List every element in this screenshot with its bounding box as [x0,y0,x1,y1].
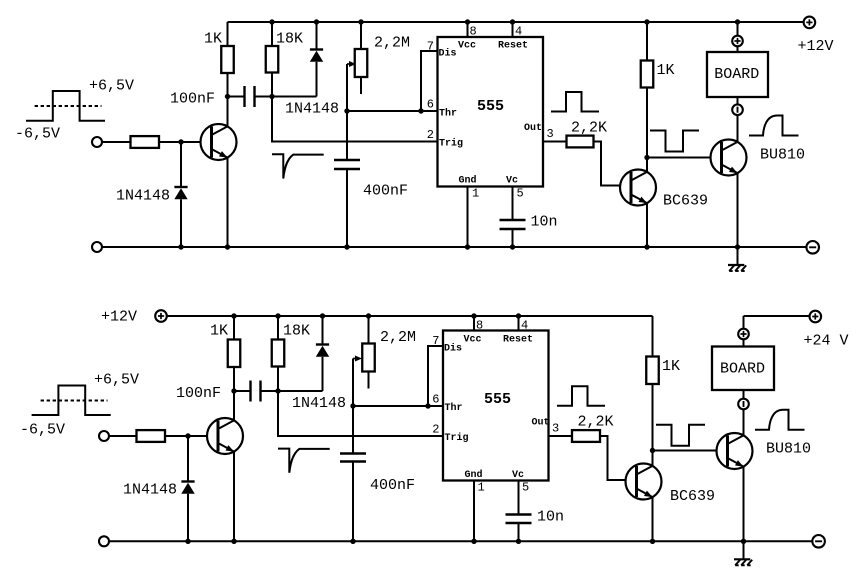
terminal +12V bottom circuit [155,310,167,322]
node Q1 collector / C1 [225,94,230,99]
transistor Q5 BC639 bottom [626,464,662,500]
svg-text:Reset: Reset [503,335,533,346]
node base junction bottom [185,433,190,438]
node Q2 collector junction top [644,155,649,160]
wire Q5 emitter down bottom [652,497,654,541]
capacitor C4 100nF bottom [234,381,278,402]
pin 4 label bottom [521,319,528,333]
svg-text:Gnd: Gnd [465,469,483,481]
label 555 top [477,98,504,115]
wire +24V horizontal [744,315,810,317]
IC U2 555 box bottom [443,331,549,481]
transistor Q4 bottom [207,418,243,454]
resistor R-in bottom (unlabeled) [137,430,166,442]
node 10n-rail top [510,244,515,249]
node wiper-Thr top [344,108,349,113]
node C1 right / 18K bottom [269,94,274,99]
svg-text:Vc: Vc [512,470,524,481]
svg-text:1N4148: 1N4148 [292,395,346,412]
terminal +24V bottom circuit [810,311,822,323]
pin Thr label top [439,107,457,119]
svg-text:Thr: Thr [439,107,457,119]
potentiometer P1 2,2M top [355,22,368,94]
pin 8 stub top [467,22,469,37]
label 400nF bottom [370,477,415,494]
svg-text:BC639: BC639 [670,488,715,505]
svg-text:Vc: Vc [506,175,518,186]
label BOARD top [714,66,759,83]
IC U1 555 box top [438,37,544,187]
svg-text:Vcc: Vcc [458,40,476,51]
rounded pulse waveform symbol top [749,116,799,136]
pin 6 label bottom [432,393,439,407]
input terminal top circuit [92,137,102,147]
svg-text:555: 555 [484,391,511,408]
bottom rail (0V) top circuit [102,246,806,248]
pin Out label bottom [532,418,550,429]
diode D2 1N4148 top [272,22,323,97]
negative spike waveform symbol bottom [278,449,330,473]
node D3-rail bottom [185,539,190,544]
label +6,5V bottom [94,372,139,389]
terminal BOARD plus bottom [738,329,749,340]
node C5-rail bottom [350,539,355,544]
pin 8 label bottom [476,319,483,333]
label +6,5V top [89,78,134,95]
wire rail to BOARD plus top [737,22,739,36]
transistor Q3 BU810 top [711,140,747,176]
pin 4 label top [515,25,522,39]
svg-text:+12V: +12V [798,38,834,55]
node Q1 emitter rail top [225,244,230,249]
resistor R3 18K top [266,22,279,97]
pin Vc label top [506,175,518,186]
svg-text:1K: 1K [210,322,228,339]
node Q5 emitter rail bottom [650,539,655,544]
node rail-BOARD top [735,19,740,24]
label 10n bottom [537,509,564,526]
input terminal bottom circuit [99,431,109,441]
svg-text:Out: Out [532,418,550,429]
svg-text:Thr: Thr [445,402,463,414]
node Q5 collector junction bottom [650,448,655,453]
wire Q4 emitter down bottom [233,452,235,542]
node wiper-Thr bottom [350,403,355,408]
svg-text:+6,5V: +6,5V [94,372,139,389]
pin Out label top [524,123,542,134]
node rail-18K top [269,19,274,24]
node rail-D2 top [314,19,319,24]
wire Q5 collector up bottom [652,451,654,466]
node rail-pin8 bottom [471,313,476,318]
top supply rail (+12V) top circuit [228,21,804,23]
svg-text:6: 6 [427,98,434,112]
pin 8 stub bottom [473,316,475,331]
node Q3 emitter rail top [735,244,740,249]
svg-text:400nF: 400nF [370,477,415,494]
svg-text:3: 3 [547,127,554,141]
pin 5 label bottom [522,481,529,495]
label 1K R6 bottom [210,322,228,339]
resistor R-in top (unlabeled) [131,136,160,148]
node rail-18K bottom [275,313,280,318]
svg-text:BU810: BU810 [766,441,811,458]
diode D3 1N4148 (input clamp) bottom [181,436,194,541]
node Q4 emitter rail bottom [231,539,236,544]
wire Out pin3 bottom [549,435,573,437]
wire Q3 collector up top [737,115,739,142]
node C4 right / 18K bottom [275,388,280,393]
svg-text:BC639: BC639 [663,193,708,210]
node base junction top [178,139,183,144]
svg-text:Reset: Reset [498,40,528,51]
svg-text:3: 3 [552,422,559,436]
inverted pulse waveform symbol bottom [656,425,705,446]
resistor R6 1K bottom-left [228,316,241,391]
input waveform symbol (square wave) bottom circuit [32,386,111,416]
wiper arrow P1 top [347,61,356,111]
svg-text:18K: 18K [283,322,310,339]
svg-text:5: 5 [522,481,529,495]
node rail-P2 bottom [366,313,371,318]
negative spike waveform symbol top [272,154,324,178]
wire resistor to Q1 base [159,141,212,143]
node Dis-Thr top [418,108,423,113]
BOARD box top [707,52,768,97]
pin Reset label top [498,40,528,51]
terminal minus right bottom circuit [812,535,825,548]
transistor Q1 top [201,124,237,160]
node rail-pin8 top [465,19,470,24]
wire Q5 collector to Q6 base bottom [653,450,728,452]
svg-text:-6,5V: -6,5V [15,125,60,142]
pin 3 label top [547,127,554,141]
pin 1 label bottom [478,481,485,495]
pin Gnd label top [459,174,477,186]
label 1K R5 top [657,62,675,79]
diode D4 1N4148 bottom [278,316,329,391]
wire Q2 collector up top [646,158,648,172]
svg-text:1K: 1K [657,62,675,79]
svg-text:100nF: 100nF [176,385,221,402]
capacitor C3 10n top [500,187,526,248]
svg-text:6: 6 [432,393,439,407]
pin Vcc label bottom [464,335,482,346]
svg-text:2: 2 [427,128,434,142]
svg-text:2,2K: 2,2K [571,119,607,136]
label -6,5V bottom [20,422,65,439]
label 10n top [531,214,558,231]
svg-text:2,2K: 2,2K [578,414,614,431]
node rail-D4 bottom [320,313,325,318]
svg-text:1K: 1K [204,30,222,47]
svg-text:Dis: Dis [439,48,457,60]
capacitor C1 100nF top [228,86,273,107]
svg-text:8: 8 [470,25,477,39]
bottom rail (0V) bottom circuit [109,540,812,542]
label BU810 bottom [766,441,811,458]
resistor R9 1K bottom-right [646,316,659,451]
pin 5 label top [517,187,524,201]
wire input to series resistor [102,141,131,143]
label 2,2K bottom [578,414,614,431]
node rail-pin4 top [510,19,515,24]
wire resistor to Q4 base bottom [165,435,218,437]
svg-text:4: 4 [521,319,528,333]
chassis ground symbol top [728,247,746,271]
label BU810 top [760,147,805,164]
svg-text:Vcc: Vcc [464,335,482,346]
svg-text:1K: 1K [662,358,680,375]
wire Dis (pin7) top [421,51,438,111]
label 1K R9 bottom [662,358,680,375]
pin 4 stub top [512,22,514,37]
label +12V top [798,38,834,55]
svg-text:10n: 10n [537,509,564,526]
node rail-R6 bottom [231,313,236,318]
label 1N4148 D2 top [285,101,339,118]
pulse waveform symbol at Out bottom [557,386,605,406]
resistor R4 2,2K top [567,136,594,148]
svg-text:Trig: Trig [445,432,469,444]
node C2-rail top [344,244,349,249]
pin Dis label top [439,48,457,60]
svg-text:-6,5V: -6,5V [20,422,65,439]
terminal BOARD minus top [732,104,743,115]
svg-text:1: 1 [472,187,479,201]
wire Q6 collector up bottom [743,409,745,435]
node gnd-rail top [465,244,470,249]
node Q6 emitter rail bottom [741,539,746,544]
transistor Q6 BU810 bottom [717,433,753,469]
wire Q1 emitter down [227,158,229,247]
resistor R5 1K top-right [641,22,654,158]
potentiometer P2 2,2M bottom [362,316,375,389]
wire 2,2K to Q5 base bottom [600,436,637,480]
label 18K R3 top [276,30,303,47]
capacitor C5 400nF bottom [340,406,366,541]
capacitor C2 400nF top [334,111,360,247]
pulse waveform symbol at Out top [551,92,599,112]
terminal BOARD minus bottom [738,399,749,410]
svg-text:2,2M: 2,2M [380,329,416,346]
svg-text:8: 8 [476,319,483,333]
wiper arrow P2 bottom [353,356,362,407]
svg-text:100nF: 100nF [170,91,215,108]
svg-text:2,2M: 2,2M [374,34,410,51]
resistor R7 18K bottom [272,316,285,391]
rounded pulse waveform symbol bottom [755,410,805,430]
wire input to series resistor bottom [109,435,137,437]
svg-text:5: 5 [517,187,524,201]
pin 4 stub bottom [518,316,520,331]
pin 8 label top [470,25,477,39]
terminal minus right top circuit [806,241,819,254]
wire Dis (pin7) bottom [428,346,443,406]
top supply rail bottom circuit [167,315,653,317]
svg-text:1: 1 [478,481,485,495]
svg-text:7: 7 [427,40,434,54]
node Dis-Thr bottom [425,403,430,408]
wire BOARD plus to box top [737,46,739,52]
label BC639 top [663,193,708,210]
node Q4 collector / C4 bottom [231,388,236,393]
svg-text:400nF: 400nF [363,183,408,200]
svg-text:BOARD: BOARD [714,66,759,83]
node Q2 emitter rail top [644,244,649,249]
label 18K R7 bottom [283,322,310,339]
label 1N4148 D3 bottom [123,482,177,499]
ground terminal left top circuit [92,242,102,252]
svg-text:18K: 18K [276,30,303,47]
wire Gnd pin1 down top [467,187,469,248]
chassis ground symbol bottom [734,541,752,565]
capacitor C6 10n bottom [506,481,532,542]
BOARD box bottom [712,347,774,391]
node rail-P1 top [358,19,363,24]
label 555 bottom [484,391,511,408]
resistor R8 2,2K bottom [572,430,600,442]
svg-text:2: 2 [432,423,439,437]
wire BOARD plus to box bottom [743,339,745,346]
label -6,5V top [15,125,60,142]
label 2,2M bottom [380,329,416,346]
pin Gnd label bottom [465,469,483,481]
wire Thr (pin6) bottom [353,405,443,407]
pin 6 label top [427,98,434,112]
label 100nF top [170,91,215,108]
svg-text:4: 4 [515,25,522,39]
wire Q4 collector up bottom [233,391,235,420]
pin 7 label top [427,40,434,54]
pin Vc label bottom [512,470,524,481]
svg-text:1N4148: 1N4148 [116,188,170,205]
node rail-R5 top [644,19,649,24]
svg-text:1N4148: 1N4148 [123,482,177,499]
terminal +12V top circuit [804,17,816,29]
node rail-pin4 bottom [516,313,521,318]
wire Q2 emitter down top [646,203,648,247]
node D1-rail top [178,244,183,249]
pin Dis label bottom [444,343,462,355]
ground terminal left bottom circuit [99,536,109,546]
terminal BOARD plus top [732,36,743,47]
wire Q6 emitter down bottom [743,467,745,542]
label 2,2K top [571,119,607,136]
svg-text:Gnd: Gnd [459,174,477,186]
inverted pulse waveform symbol top [650,131,699,152]
pin Trig label top [439,137,463,149]
wire Thr (pin6) top [347,110,438,112]
svg-text:Trig: Trig [439,137,463,149]
pin 2 label bottom [432,423,439,437]
svg-text:+6,5V: +6,5V [89,78,134,95]
node gnd-rail bottom [471,539,476,544]
svg-text:10n: 10n [531,214,558,231]
pin Vcc label top [458,40,476,51]
pin Reset label bottom [503,335,533,346]
wire Trig (pin2) bottom [278,391,443,436]
wire Q2 collector to Q3 base top [647,157,722,159]
svg-text:+24 V: +24 V [804,332,849,349]
transistor Q2 BC639 top [620,170,656,206]
svg-text:+12V: +12V [101,309,137,326]
wire Out pin3 top [543,141,567,143]
pin 7 label bottom [432,334,439,348]
pin 3 label bottom [552,422,559,436]
svg-text:7: 7 [432,334,439,348]
input waveform symbol (square wave) top circuit [26,91,105,121]
svg-text:BOARD: BOARD [720,361,765,378]
wire Q3 emitter down top [737,173,739,247]
resistor R2 1K top-left [221,22,234,97]
pin Thr label bottom [445,402,463,414]
label +24 V bottom [804,332,849,349]
pin 2 label top [427,128,434,142]
wire Q1 collector up [227,97,229,127]
node 10n-rail bottom [516,539,521,544]
svg-text:555: 555 [477,98,504,115]
label 400nF top [363,183,408,200]
wire 2,2K to Q2 base top [594,142,632,186]
svg-text:Out: Out [524,123,542,134]
wire BOARD plus up to +24V wire [743,316,745,329]
label 1N4148 D1 top [116,188,170,205]
wire BOARD box to minus terminal bottom [743,390,745,399]
diode D1 1N4148 (input clamp) top [174,142,187,247]
wire Gnd pin1 down bottom [473,481,475,542]
svg-text:BU810: BU810 [760,147,805,164]
label BC639 bottom [670,488,715,505]
label 100nF bottom [176,385,221,402]
label 2,2M top [374,34,410,51]
wire BOARD box to minus terminal top [737,97,739,104]
label 1K R2 top [204,30,222,47]
label +12V bottom [101,309,137,326]
label BOARD bottom [720,361,765,378]
pin Trig label bottom [445,432,469,444]
label 1N4148 D4 bottom [292,395,346,412]
wire Trig (pin2) top [272,97,438,142]
svg-text:Dis: Dis [444,343,462,355]
svg-text:1N4148: 1N4148 [285,101,339,118]
pin 1 label top [472,187,479,201]
